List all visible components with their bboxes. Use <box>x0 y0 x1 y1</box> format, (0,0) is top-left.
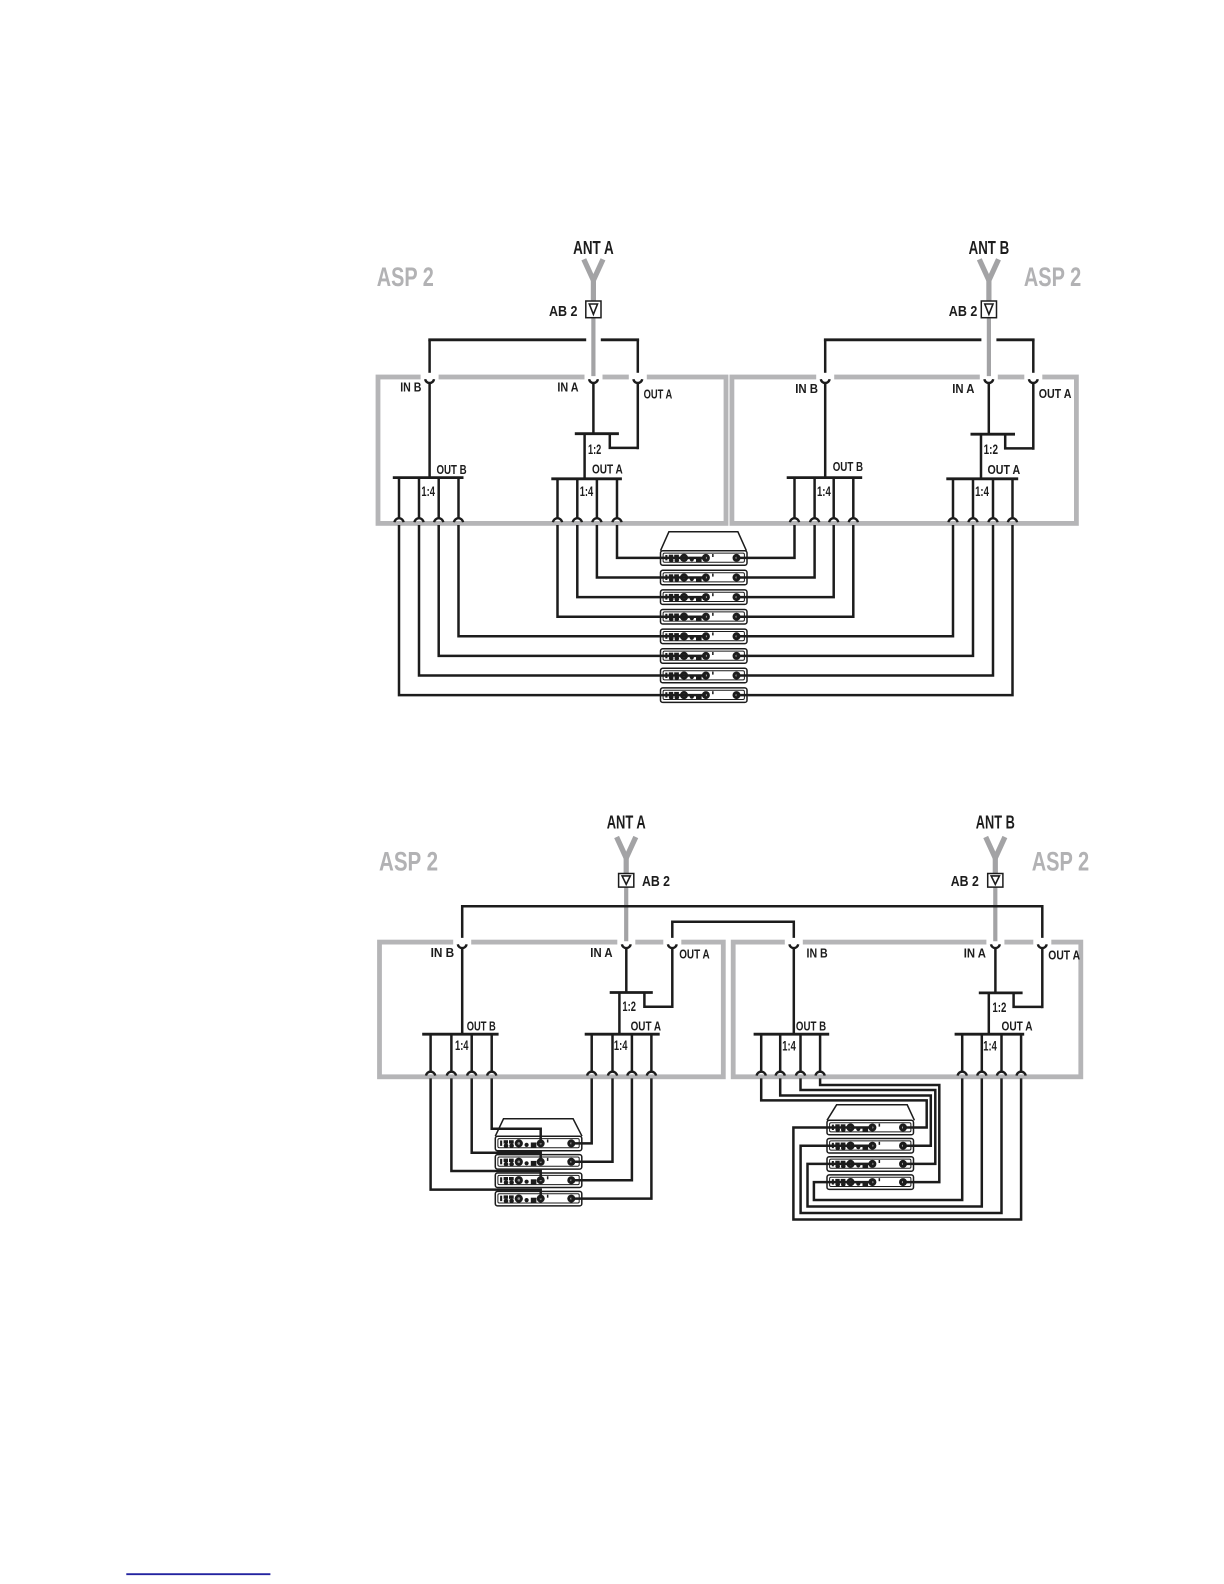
port U1 OUT A-3 <box>592 518 601 522</box>
port U3 OUT A-3 <box>627 1072 636 1076</box>
svg-text:ANT B: ANT B <box>969 237 1010 258</box>
wire: U4 OUT A stub 1 <box>961 1034 964 1071</box>
svg-text:AB 2: AB 2 <box>549 304 578 320</box>
svg-text:AB 2: AB 2 <box>949 304 978 320</box>
port U4 OUT A <box>1038 944 1047 948</box>
port U3 OUT A-2 <box>608 1072 617 1076</box>
splitter 1:4 (U2 OUT A) bar <box>946 477 1018 480</box>
splitter 1:2 (U2) bar <box>971 433 1016 436</box>
wire: U1 OUT B stub 3 <box>437 478 440 518</box>
antenna ANT B symbol <box>979 259 998 280</box>
wire: U2 output port to RX6 antenna B input <box>737 525 974 656</box>
gap in enclosure edge at port <box>986 939 1004 945</box>
antenna ANT B symbol <box>986 837 1005 858</box>
wire: U4 IN B to OUT B splitter <box>793 949 796 1034</box>
svg-text:ANT A: ANT A <box>573 237 614 258</box>
svg-text:ASP 2: ASP 2 <box>1024 262 1081 292</box>
attenuator AB 2 (ANT B) triangle symbol <box>985 304 993 314</box>
svg-text:ASP 2: ASP 2 <box>377 262 434 292</box>
port U4 OUT A-1 <box>958 1072 967 1076</box>
svg-text:1:2: 1:2 <box>984 442 998 457</box>
port U2 OUT B-4 <box>849 518 858 522</box>
wire: U2 output port to RX7 antenna B input <box>737 525 994 676</box>
svg-text:AB 2: AB 2 <box>951 874 979 890</box>
receiver stack lid (top diagram) <box>661 532 747 551</box>
wire: U2 OUT A to IN B cascade bridge <box>824 340 827 373</box>
svg-text:IN B: IN B <box>795 381 818 396</box>
wire: U3 OUT B port to RX10 antenna input <box>472 1078 541 1161</box>
wire: U4 OUT A stub 2 <box>981 1034 984 1071</box>
receiver RX12 <box>495 1191 582 1206</box>
gap in enclosure edge at port <box>629 374 647 380</box>
attenuator AB 2 (ANT B) triangle symbol <box>991 876 999 884</box>
port U1 OUT A-4 <box>612 518 621 522</box>
port U2 OUT B-3 <box>829 518 838 522</box>
wire: U4 OUT B stub 4 <box>819 1034 822 1071</box>
wire: U4 OUT A stub 4 <box>1020 1034 1023 1071</box>
port U1 OUT B-3 <box>434 518 443 522</box>
attenuator AB 2 (ANT B) box <box>988 874 1003 888</box>
splitter 1:2 (U4) bar <box>979 992 1023 995</box>
svg-text:OUT B: OUT B <box>796 1019 826 1034</box>
receiver stack lid (bottom right) <box>827 1105 914 1121</box>
wire: U4 OUT B port to RX15 antenna B input <box>801 1078 936 1164</box>
ASP 2 unit U1 enclosure (gray) <box>378 377 726 523</box>
port U1 OUT A-2 <box>573 518 582 522</box>
wire: U1 OUT A stub 1 <box>556 479 559 518</box>
wire: U3 OUT A port to RX10 antenna input <box>571 1078 612 1161</box>
svg-text:ASP 2: ASP 2 <box>379 847 438 877</box>
receiver RX2 <box>661 570 748 585</box>
wire: U2 output port to RX5 antenna B input <box>737 525 954 636</box>
wire: U1 output port to RX5 antenna A input <box>459 525 706 636</box>
port U3 OUT B-3 <box>467 1072 476 1076</box>
wire: U4 OUT B stub 3 <box>799 1034 802 1071</box>
wire: U1 OUT B stub 4 <box>457 478 460 518</box>
gap in enclosure edge at port <box>980 374 998 380</box>
wire: U1 OUT A to IN B cascade bridge <box>428 340 431 373</box>
svg-text:IN A: IN A <box>952 381 975 396</box>
receiver RX14 <box>827 1139 914 1154</box>
port U2 OUT A-2 <box>968 518 977 522</box>
ASP 2 unit U4 enclosure (gray) <box>733 942 1081 1077</box>
wire: U1 IN A to 1:2 splitter <box>592 384 595 434</box>
svg-text:1:2: 1:2 <box>622 999 636 1014</box>
port U4 OUT B-4 <box>816 1072 825 1076</box>
antenna ANT B feeder wire (gray) <box>993 856 997 941</box>
wire: U2 OUT A stub 4 <box>1011 479 1014 518</box>
wire: U3 OUT A port to RX12 antenna input <box>571 1078 651 1198</box>
svg-text:1:2: 1:2 <box>992 1000 1006 1015</box>
wire: U2 IN B to OUT B splitter <box>824 384 827 478</box>
wire: U2 IN A to 1:2 splitter <box>988 384 991 435</box>
port U2 OUT B-2 <box>810 518 819 522</box>
wire: U1 OUT B stub 2 <box>418 478 421 518</box>
gap in enclosure edge at port <box>1033 939 1051 945</box>
antenna ANT A symbol <box>584 259 603 280</box>
port U4 OUT A-3 <box>997 1072 1006 1076</box>
svg-text:IN B: IN B <box>400 380 421 395</box>
port U2 IN A <box>984 379 993 383</box>
svg-text:OUT A: OUT A <box>1002 1019 1033 1034</box>
svg-text:OUT B: OUT B <box>467 1019 496 1034</box>
wire: U1 OUT A stub 4 <box>616 479 619 518</box>
wire: U3 IN A to 1:2 splitter <box>625 949 628 993</box>
wire: U4 OUT B port to RX14 antenna B input <box>780 1078 931 1145</box>
port U3 IN B <box>458 944 467 948</box>
receiver RX8 <box>661 688 748 703</box>
splitter 1:4 (U2 OUT B) bar <box>787 476 863 479</box>
port U1 OUT B-2 <box>414 518 423 522</box>
wire: U1 1:2 output to OUT A port <box>610 434 638 448</box>
wire: U4 IN A to 1:2 splitter <box>994 949 997 993</box>
wire: U2 output port to RX3 antenna B input <box>737 525 834 597</box>
port U4 OUT A-2 <box>977 1072 986 1076</box>
port U1 OUT B-1 <box>394 518 403 522</box>
wire: U1 output port to RX6 antenna A input <box>439 525 706 656</box>
wire: U3 OUT B stub 2 <box>450 1034 453 1071</box>
receiver RX7 <box>661 668 748 683</box>
svg-text:IN A: IN A <box>557 380 579 395</box>
port U4 OUT B-2 <box>776 1072 785 1076</box>
port U3 OUT B-2 <box>447 1072 456 1076</box>
ASP 2 unit U2 enclosure (gray) <box>732 377 1077 523</box>
port U1 OUT A <box>633 379 642 383</box>
wire: U1 1:2 output to OUT A 1:4 splitter <box>583 434 586 479</box>
gap in enclosure edge at port <box>816 374 834 380</box>
wire: U1 output port to RX8 antenna A input <box>399 525 706 695</box>
port U1 OUT B-4 <box>454 518 463 522</box>
footer rule (blue) <box>126 1573 270 1575</box>
port U3 OUT A-4 <box>647 1072 656 1076</box>
port U2 OUT A-3 <box>988 518 997 522</box>
svg-text:1:4: 1:4 <box>455 1038 469 1053</box>
wire: U4 1:2 output to OUT A port <box>1014 993 1043 1007</box>
svg-text:OUT A: OUT A <box>644 387 673 402</box>
gap in enclosure edge at port <box>585 374 603 380</box>
svg-text:1:4: 1:4 <box>580 484 594 499</box>
port U4 OUT B-1 <box>757 1072 766 1076</box>
attenuator AB 2 (ANT A) box <box>619 874 634 888</box>
port U4 OUT B-3 <box>796 1072 805 1076</box>
wire: U1 OUT A stub 3 <box>596 479 599 518</box>
receiver RX3 <box>661 590 748 605</box>
wire: U3 OUT A port to RX9 antenna input <box>571 1078 591 1143</box>
svg-text:1:4: 1:4 <box>817 484 831 499</box>
svg-text:OUT A: OUT A <box>679 946 710 961</box>
wire: U2 1:2 output to OUT A port <box>1005 434 1033 448</box>
wire: U3 OUT B stub 3 <box>470 1034 473 1071</box>
gap in enclosure edge at port <box>421 374 439 380</box>
wire: U4 OUT B stub 1 <box>760 1034 763 1071</box>
wire: U4 OUT A stub 3 <box>1000 1034 1003 1071</box>
wire: U4 OUT A port to RX14 antenna A input <box>801 1078 1002 1213</box>
splitter 1:4 (U4 OUT B) bar <box>754 1033 830 1036</box>
attenuator AB 2 (ANT A) triangle symbol <box>622 876 630 884</box>
wire: U4 1:2 output to OUT A 1:4 splitter <box>988 993 991 1034</box>
splitter 1:4 (U1 OUT A) bar <box>551 477 622 480</box>
wire: U4 OUT A port to RX13 antenna A input <box>793 1078 1021 1219</box>
port U2 OUT A-4 <box>1008 518 1017 522</box>
gap in enclosure edge at port <box>1024 374 1042 380</box>
wire: U4 OUT B stub 2 <box>779 1034 782 1071</box>
receiver RX4 <box>661 610 748 625</box>
wire: U1 OUT B stub 1 <box>398 478 401 518</box>
svg-text:1:4: 1:4 <box>983 1039 997 1054</box>
gap in enclosure edge at port <box>453 939 471 945</box>
attenuator AB 2 (ANT B) box <box>981 301 996 318</box>
attenuator AB 2 (ANT A) triangle symbol <box>589 304 597 314</box>
svg-text:1:4: 1:4 <box>614 1038 628 1053</box>
port U1 IN B <box>425 379 434 383</box>
svg-text:1:4: 1:4 <box>421 484 435 499</box>
wire: U4 OUT A port to RX16 antenna A input <box>814 1078 962 1200</box>
wire: U1 output port to RX3 antenna A input <box>577 525 706 597</box>
receiver RX9 <box>495 1136 582 1151</box>
wire: U2 output port to RX4 antenna B input <box>737 525 854 617</box>
wire: U3 IN B to OUT B splitter <box>461 949 464 1034</box>
svg-text:IN A: IN A <box>590 945 613 960</box>
svg-text:OUT A: OUT A <box>1039 386 1072 401</box>
svg-text:1:4: 1:4 <box>782 1039 796 1054</box>
port U3 OUT A-1 <box>587 1072 596 1076</box>
wire: U3 OUT A to U4 IN B cross bridge <box>672 922 794 938</box>
receiver RX10 <box>495 1155 582 1170</box>
port U2 OUT B-1 <box>790 518 799 522</box>
svg-text:1:2: 1:2 <box>588 442 601 457</box>
gap in enclosure edge at port <box>785 939 803 945</box>
port U4 IN A <box>991 944 1000 948</box>
wire: U3 OUT A stub 3 <box>631 1034 634 1071</box>
wire: U3 OUT A stub 2 <box>611 1034 614 1071</box>
port U3 IN A <box>622 944 631 948</box>
wire: U2 OUT A stub 3 <box>992 479 995 518</box>
wire: U2 1:2 output to OUT A 1:4 splitter <box>980 434 983 479</box>
receiver RX11 <box>495 1173 582 1188</box>
port U1 IN A <box>589 379 598 383</box>
wire: U2 OUT A stub 2 <box>972 479 975 518</box>
wire: U3 OUT B port to RX12 antenna input <box>431 1078 541 1198</box>
wire: U3 OUT A stub 1 <box>590 1034 593 1071</box>
splitter 1:4 (U4 OUT A) bar <box>955 1033 1025 1036</box>
antenna ANT A symbol <box>617 837 636 858</box>
gap in enclosure edge at port <box>617 939 635 945</box>
receiver RX5 <box>661 629 748 644</box>
wire: U1 output port to RX1 antenna A input <box>617 525 706 558</box>
svg-text:OUT A: OUT A <box>988 462 1021 477</box>
port U2 OUT A <box>1029 379 1038 383</box>
port U3 OUT B-1 <box>426 1072 435 1076</box>
port U4 OUT A-4 <box>1017 1072 1026 1076</box>
antenna ANT B feeder wire (gray) <box>987 278 991 376</box>
wire: U1 output port to RX4 antenna A input <box>558 525 706 617</box>
splitter 1:4 (U3 OUT A) bar <box>585 1033 660 1036</box>
wire: U2 OUT B stub 2 <box>813 478 816 518</box>
wire: U2 OUT A stub 1 <box>952 479 955 518</box>
wire: U2 output port to RX8 antenna B input <box>737 525 1013 695</box>
antenna ANT A feeder wire (gray) <box>624 856 628 941</box>
wire: U3 OUT B port to RX9 antenna input <box>492 1078 541 1143</box>
wire: U4 OUT A to U3 IN B cross bridge <box>462 906 1042 938</box>
port U1 OUT A-1 <box>553 518 562 522</box>
svg-text:1:4: 1:4 <box>975 484 989 499</box>
gap in enclosure edge at port <box>663 939 681 945</box>
port U3 OUT B-4 <box>487 1072 496 1076</box>
svg-text:OUT A: OUT A <box>592 461 623 476</box>
receiver RX1 <box>661 551 748 566</box>
wire: U4 OUT B port to RX13 antenna B input <box>761 1078 927 1127</box>
receiver stack lid (bottom left) <box>495 1119 582 1136</box>
antenna ANT A feeder wire (gray) <box>591 278 595 376</box>
splitter 1:2 (U3) bar <box>610 991 653 994</box>
port U3 OUT A <box>668 944 677 948</box>
wire: U1 output port to RX2 antenna A input <box>597 525 706 578</box>
wire: U1 IN B to OUT B splitter <box>428 384 431 478</box>
receiver RX6 <box>661 649 748 664</box>
splitter 1:2 (U1) bar <box>575 432 619 435</box>
wire: U3 OUT B stub 1 <box>429 1034 432 1071</box>
wire: U1 OUT A stub 2 <box>576 479 579 518</box>
wire: U2 output port to RX2 antenna B input <box>737 525 815 578</box>
svg-text:OUT B: OUT B <box>833 459 863 474</box>
wire: U3 OUT A stub 4 <box>650 1034 653 1071</box>
svg-text:IN B: IN B <box>431 945 455 960</box>
svg-text:AB 2: AB 2 <box>642 874 670 890</box>
wire: U1 output port to RX7 antenna A input <box>419 525 706 676</box>
svg-text:ASP 2: ASP 2 <box>1032 847 1090 877</box>
receiver RX16 <box>827 1175 914 1190</box>
wire: U2 OUT B stub 1 <box>793 478 796 518</box>
port U2 IN B <box>821 379 830 383</box>
wire: U2 output port to RX1 antenna B input <box>737 525 795 558</box>
receiver RX13 <box>827 1120 914 1135</box>
wire: U4 OUT B port to RX16 antenna B input <box>820 1078 939 1182</box>
port U4 IN B <box>789 944 798 948</box>
svg-text:OUT A: OUT A <box>1048 947 1080 962</box>
svg-text:ANT B: ANT B <box>976 811 1015 832</box>
wire: U4 OUT A port to RX15 antenna A input <box>808 1078 982 1206</box>
svg-text:OUT A: OUT A <box>631 1019 662 1034</box>
svg-text:IN A: IN A <box>964 946 987 961</box>
attenuator AB 2 (ANT A) box <box>586 301 601 318</box>
splitter 1:4 (U3 OUT B) bar <box>422 1033 498 1036</box>
svg-text:OUT B: OUT B <box>437 462 467 477</box>
wire: U3 OUT A port to RX11 antenna input <box>571 1078 632 1180</box>
receiver RX15 <box>827 1157 914 1172</box>
svg-text:ANT A: ANT A <box>607 811 646 832</box>
wire: U2 OUT B stub 3 <box>832 478 835 518</box>
wire: U3 1:2 output to OUT A port <box>644 993 672 1007</box>
wire: U2 OUT B stub 4 <box>852 478 855 518</box>
ASP 2 unit U3 enclosure (gray) <box>380 942 724 1077</box>
splitter 1:4 (U1 OUT B) bar <box>393 476 464 479</box>
port U2 OUT A-1 <box>948 518 957 522</box>
wire: U3 OUT B stub 4 <box>490 1034 493 1071</box>
wire: U3 1:2 output to OUT A 1:4 splitter <box>618 993 621 1035</box>
svg-text:IN B: IN B <box>807 946 828 961</box>
wire: U3 OUT B port to RX11 antenna input <box>451 1078 540 1180</box>
